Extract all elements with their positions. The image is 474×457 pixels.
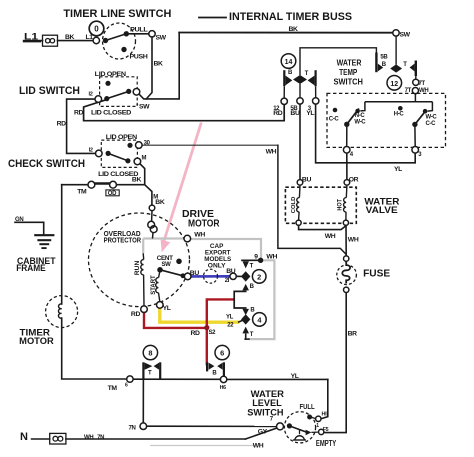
- timer cam 14: [281, 54, 296, 69]
- svg-text:LID OPEN: LID OPEN: [106, 134, 137, 141]
- svg-text:YL: YL: [306, 110, 314, 117]
- svg-text:I2: I2: [89, 148, 93, 154]
- water level switch ground: [293, 429, 306, 440]
- svg-text:HI: HI: [322, 412, 328, 418]
- svg-text:H-C: H-C: [394, 111, 405, 117]
- svg-text:LID OPEN: LID OPEN: [95, 71, 126, 78]
- main black wiring: [15, 18, 415, 440]
- svg-text:FULL: FULL: [300, 402, 316, 411]
- wire bottom rail TM to water level switch: [133, 378, 220, 380]
- wire 30/WH net: LS2 lid-open to fuse: [142, 144, 278, 146]
- wire terminal 9 link to switch 2 T: [242, 259, 258, 261]
- capacitor dashed circle: [204, 269, 218, 283]
- timer cam 12: [387, 76, 402, 91]
- svg-text:GN: GN: [15, 217, 23, 223]
- wire left column to timer motor and bottom rail: [61, 185, 63, 304]
- switch 14 (timer contacts): [284, 70, 315, 86]
- water valve box: [285, 187, 356, 223]
- svg-text:RD: RD: [273, 110, 283, 117]
- boxed OD label: [106, 190, 119, 196]
- svg-text:WH: WH: [419, 88, 428, 94]
- svg-text:EMPTY: EMPTY: [316, 439, 337, 448]
- cold solenoid: [297, 186, 300, 220]
- terminal hot valve bottom: [343, 220, 348, 225]
- svg-text:SWITCH: SWITCH: [247, 408, 284, 418]
- terminal 7T upper: [413, 79, 419, 85]
- svg-text:TM: TM: [108, 385, 118, 392]
- timer cam 0: [89, 21, 104, 36]
- terminal I2 lid switch 1 common: [95, 96, 102, 103]
- terminal 7N: [140, 423, 147, 430]
- svg-text:WH: WH: [348, 237, 359, 244]
- svg-text:F5: F5: [323, 427, 329, 433]
- svg-text:RD: RD: [74, 109, 84, 116]
- terminal RD drive motor: [141, 306, 148, 313]
- svg-text:S2: S2: [209, 330, 217, 336]
- terminal HI water level switch: [316, 416, 321, 421]
- svg-text:C-C: C-C: [329, 117, 340, 123]
- switch 12 water temp selector: [375, 53, 377, 73]
- terminal TM on rail: [127, 376, 133, 382]
- wire internal timer buss: [179, 32, 393, 34]
- svg-text:WH: WH: [266, 148, 277, 155]
- svg-text:5B: 5B: [380, 55, 388, 61]
- terminal 7 water level switch common: [277, 423, 284, 430]
- svg-text:RD: RD: [191, 330, 201, 337]
- svg-text:TEMP: TEMP: [339, 67, 358, 77]
- wire L1 lead-in: [24, 40, 43, 42]
- wire M BK: LS2 output to drive motor: [140, 164, 152, 205]
- legend line internal timer buss: [199, 17, 226, 19]
- svg-text:BK: BK: [65, 34, 75, 41]
- connector on L1 lead: [43, 35, 58, 46]
- timer line switch assembly: [103, 23, 136, 59]
- wire N neutral rail: [32, 438, 50, 440]
- svg-text:PUSH: PUSH: [130, 54, 148, 61]
- svg-text:22: 22: [227, 323, 234, 329]
- svg-text:FUSE: FUSE: [363, 268, 390, 279]
- svg-text:START: START: [151, 275, 157, 295]
- wire BU blue: motor to capacitor to switch 2: [191, 275, 230, 278]
- svg-text:7N: 7N: [97, 435, 104, 441]
- svg-text:MOTOR: MOTOR: [19, 336, 54, 346]
- terminal 4 water temp switch: [343, 147, 350, 154]
- terminal I2 lid switch 2 common: [96, 150, 103, 157]
- svg-text:2: 2: [257, 272, 261, 281]
- svg-text:LID SWITCH: LID SWITCH: [19, 85, 80, 97]
- svg-text:TIMER LINE SWITCH: TIMER LINE SWITCH: [63, 8, 171, 20]
- terminal check switch right: [110, 181, 117, 188]
- terminal SW timer line switch: [149, 31, 155, 37]
- terminal F5 water level switch: [319, 429, 324, 434]
- svg-text:OR: OR: [349, 177, 359, 184]
- svg-text:WH: WH: [253, 443, 264, 450]
- svg-text:LID CLOSED: LID CLOSED: [91, 110, 131, 117]
- terminal M lid switch 2: [134, 158, 141, 165]
- svg-text:WH: WH: [266, 253, 277, 260]
- wire YL yellow: motor start to switch 4: [160, 308, 239, 322]
- switch 2 (timer contacts): [241, 261, 250, 290]
- terminal M drive motor: [149, 205, 155, 211]
- svg-text:8: 8: [148, 349, 152, 358]
- faint scan artifact line bottom: [150, 445, 255, 447]
- svg-text:INTERNAL TIMER BUSS: INTERNAL TIMER BUSS: [229, 11, 352, 23]
- wire BR: fuse to water level switch F5: [325, 293, 347, 433]
- hot solenoid: [344, 186, 347, 220]
- wire WH from valve to fuse: [345, 226, 347, 256]
- wire switch 8 left leg down to 7N: [142, 372, 144, 423]
- timer cam 4: [253, 313, 267, 327]
- centrifugal switch: [160, 270, 183, 276]
- svg-text:W-C: W-C: [426, 115, 438, 121]
- svg-text:BK: BK: [154, 61, 164, 68]
- svg-text:C-C: C-C: [426, 121, 437, 127]
- water level switch: [284, 412, 315, 443]
- wire RD red: motor run to node S2, switches 2/4 bracket and switch 6: [144, 299, 234, 365]
- terminal BU drive motor: [184, 273, 191, 280]
- svg-text:BK: BK: [155, 199, 165, 206]
- svg-text:2I: 2I: [225, 278, 230, 284]
- svg-text:SW: SW: [139, 104, 150, 111]
- svg-text:RD: RD: [131, 311, 141, 318]
- svg-text:VALVE: VALVE: [366, 205, 398, 215]
- terminal WH drive motor: [184, 235, 191, 242]
- timer cam 6: [215, 345, 229, 359]
- svg-text:ONLY: ONLY: [208, 263, 226, 270]
- open terminal circles: [88, 30, 419, 435]
- svg-text:BU: BU: [190, 270, 200, 277]
- svg-text:OD: OD: [108, 191, 117, 197]
- svg-text:RUN: RUN: [135, 261, 141, 276]
- wire water valve solenoid bottoms joined: [299, 226, 346, 230]
- svg-text:COLD: COLD: [291, 197, 297, 214]
- svg-text:W-C: W-C: [354, 120, 366, 126]
- overload protector: [148, 211, 157, 239]
- wire black bracket to switch 2 B and switch 4 B: [234, 291, 246, 299]
- svg-text:7T: 7T: [405, 88, 412, 94]
- svg-text:PULL: PULL: [130, 27, 148, 34]
- svg-text:BK: BK: [132, 177, 142, 184]
- svg-text:GY: GY: [258, 429, 268, 436]
- terminal 5B BU switch 14: [297, 98, 303, 104]
- svg-text:7N: 7N: [129, 426, 136, 432]
- svg-text:L1: L1: [86, 34, 94, 41]
- svg-text:HOT: HOT: [337, 199, 343, 211]
- svg-text:CHECK SWITCH: CHECK SWITCH: [8, 158, 85, 170]
- svg-text:MOTOR: MOTOR: [188, 218, 220, 229]
- svg-text:WH: WH: [194, 232, 205, 239]
- svg-text:L1: L1: [24, 31, 39, 42]
- svg-text:BR: BR: [348, 331, 358, 338]
- svg-text:SW: SW: [400, 32, 411, 39]
- svg-text:WH: WH: [84, 435, 93, 441]
- svg-text:BU: BU: [290, 110, 300, 117]
- pink annotation arrow: [161, 123, 202, 253]
- switch 4 (timer contacts): [241, 309, 250, 334]
- wire N diagonal into water level switch: [246, 428, 278, 439]
- svg-text:7T: 7T: [419, 81, 426, 87]
- wire blue cap link to switch 2 diamond: [236, 275, 241, 277]
- run winding: [141, 253, 144, 305]
- terminal fuse bottom: [344, 287, 349, 292]
- terminal BU capacitor side: [230, 273, 236, 279]
- water temp switch internal wiring: [347, 94, 433, 147]
- cabinet frame ground symbol: [34, 235, 54, 248]
- svg-text:WH: WH: [325, 233, 336, 240]
- start winding: [156, 272, 160, 301]
- wire BU net: timer 5B down to water valve: [299, 104, 301, 179]
- wire GN cabinet frame: [15, 222, 44, 234]
- svg-text:YL: YL: [163, 305, 171, 312]
- svg-text:SW: SW: [162, 262, 172, 268]
- circled cam numerals: [94, 25, 398, 358]
- svg-text:6: 6: [220, 349, 224, 358]
- terminal 30 lid switch 2: [136, 142, 143, 149]
- terminal fuse top: [344, 256, 349, 261]
- svg-text:YL: YL: [394, 166, 402, 173]
- terminal 12 RD switch 14: [281, 98, 287, 104]
- svg-text:BU: BU: [302, 177, 312, 184]
- wire LS1 common to LS2 common: [67, 99, 96, 153]
- svg-text:9: 9: [254, 253, 258, 260]
- node S2 junction dot: [204, 325, 209, 330]
- svg-text:YL: YL: [291, 373, 299, 380]
- svg-text:M: M: [142, 156, 147, 162]
- water temp switch box: [327, 93, 446, 147]
- wire PULL contact to SW terminal: [126, 33, 149, 35]
- svg-text:LEVEL: LEVEL: [252, 398, 282, 408]
- svg-text:YL: YL: [226, 314, 234, 320]
- switch 8 (timer contacts): [143, 362, 160, 379]
- svg-text:RD: RD: [57, 121, 67, 128]
- terminal YL drive motor: [157, 302, 164, 309]
- timer motor: [46, 296, 78, 328]
- wire 7N rail to water level switch common: [147, 425, 277, 427]
- svg-text:30: 30: [144, 141, 151, 147]
- terminal BU water valve: [297, 180, 303, 186]
- wire BK drop from SW terminal: [146, 37, 152, 99]
- svg-text:PROTECTOR: PROTECTOR: [104, 235, 142, 244]
- switch 6 (timer contacts): [207, 362, 224, 376]
- terminal cold valve bottom: [296, 220, 301, 225]
- wire WH white-grey: motor internal to terminal 9 and switch4 T: [143, 239, 274, 340]
- svg-text:12: 12: [390, 81, 398, 88]
- wire yellow link to switch 4 diamond: [239, 321, 242, 322]
- terminal OR water valve: [344, 180, 350, 186]
- terminal L1 timer line switch: [93, 37, 99, 43]
- svg-text:H6: H6: [220, 385, 226, 391]
- terminal SW lid switch 1: [133, 89, 140, 96]
- svg-text:I2: I2: [89, 92, 93, 98]
- wire switch 4 T leg to WH: [245, 334, 247, 339]
- svg-text:BK: BK: [289, 26, 299, 33]
- lid switch 2 assembly: [101, 140, 137, 167]
- svg-text:14: 14: [285, 59, 293, 66]
- terminal SW water temp switch: [393, 30, 399, 36]
- wire RD net: lid closed LS1 to timer terminal 12: [84, 100, 285, 121]
- timer cam 2: [252, 270, 266, 284]
- terminal H6 switch 6: [220, 376, 226, 382]
- svg-text:FRAME: FRAME: [16, 263, 46, 273]
- terminal TM check switch left: [88, 181, 95, 188]
- svg-text:SW: SW: [156, 35, 167, 42]
- terminal 7T lower: [412, 88, 418, 94]
- check switch blade: [93, 182, 111, 185]
- drive motor dashed outline: [89, 213, 190, 307]
- terminal 3 water temp switch: [412, 147, 419, 154]
- svg-text:TM: TM: [77, 188, 87, 195]
- wire YL net: timer 3 to water temp 3: [316, 104, 416, 163]
- wire check switch line: [62, 184, 88, 186]
- wire lid switch 1 output riser to timer buss: [139, 33, 179, 99]
- lid switch 1 assembly: [100, 77, 138, 107]
- svg-text:SWITCH: SWITCH: [334, 76, 363, 86]
- svg-text:BU: BU: [226, 268, 236, 275]
- connector on N lead: [50, 433, 66, 444]
- svg-text:0: 0: [94, 25, 99, 34]
- timer cam 8: [143, 345, 157, 359]
- terminal 9 junction dot: [258, 258, 263, 263]
- svg-text:N-C: N-C: [355, 113, 366, 119]
- wire OR net: water temp 4 to water valve: [346, 153, 348, 179]
- terminal 3 YL switch 14: [313, 98, 319, 104]
- wire YL drop to HI contact: [321, 379, 327, 418]
- svg-text:N: N: [20, 431, 28, 443]
- fuse: [337, 262, 357, 285]
